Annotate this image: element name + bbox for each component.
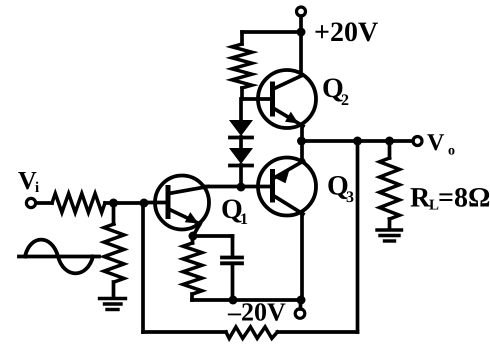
svg-text:R: R — [410, 183, 431, 214]
ground RL — [377, 230, 402, 241]
svg-text:i: i — [35, 180, 39, 196]
node output (Q2/Q3 emitters) — [297, 137, 306, 146]
wire feedback bottom left — [143, 330, 226, 334]
svg-text:2: 2 — [341, 92, 349, 109]
transistor Q2 — [258, 70, 316, 128]
svg-text:+20V: +20V — [314, 17, 378, 48]
ground bias — [100, 299, 126, 310]
wire Q3 collector down to -20V node — [300, 213, 304, 300]
svg-text:V: V — [427, 130, 445, 156]
wire top node to resistor R1 — [242, 30, 301, 34]
terminal Vi — [26, 198, 35, 207]
node bias divider — [109, 199, 118, 208]
wire node to Q1 base — [144, 201, 168, 205]
terminal Vo — [413, 137, 422, 146]
wire feedback left vertical — [141, 203, 145, 332]
wire output line — [302, 139, 414, 143]
resistor R emitter — [191, 236, 195, 243]
svg-text:o: o — [448, 144, 455, 159]
node diode bottom / Q3 base — [237, 183, 246, 192]
svg-text:3: 3 — [346, 189, 354, 206]
node -20V — [297, 296, 306, 305]
svg-text:=8Ω: =8Ω — [438, 183, 490, 214]
svg-text:1: 1 — [240, 211, 248, 228]
terminal +20V — [297, 7, 306, 16]
terminal -20V — [299, 304, 303, 309]
resistor R1 (bias from +20V) — [240, 32, 244, 44]
svg-text:–20V: –20V — [227, 298, 286, 327]
wire to bias node — [105, 201, 144, 205]
node Q1 emitter — [189, 232, 198, 241]
node feedback tap — [353, 137, 362, 146]
resistor R bias — [112, 203, 116, 224]
transistor Q3 — [258, 158, 316, 216]
wire D2 to base node — [239, 165, 243, 187]
resistor R feedback — [226, 327, 277, 339]
source sine symbol — [19, 240, 99, 274]
diode D1 — [239, 99, 243, 120]
transistor Q1 — [155, 176, 209, 237]
wire Q2 emitter to output node — [300, 125, 304, 141]
node top supply — [297, 28, 306, 37]
wire Q1 collector to Q3 base — [206, 185, 271, 189]
resistor RL — [388, 141, 392, 158]
wire output node to Q3 emitter — [300, 141, 304, 162]
wire feedback bottom right — [277, 330, 357, 334]
wire R1/diode junction to Q2 base — [242, 97, 271, 101]
diode D2 — [239, 137, 243, 148]
node capacitor bottom — [229, 296, 238, 305]
node feedback/base — [140, 199, 149, 208]
node RL tap — [385, 137, 394, 146]
wire feedback right vertical — [356, 141, 360, 332]
capacitor C1 branch — [193, 234, 233, 238]
wire R/C bottom to -20V node — [192, 298, 301, 302]
wire top terminal to Q2 collector — [299, 16, 303, 75]
resistor R input — [52, 194, 105, 213]
wire Vi to resistor — [36, 201, 52, 205]
